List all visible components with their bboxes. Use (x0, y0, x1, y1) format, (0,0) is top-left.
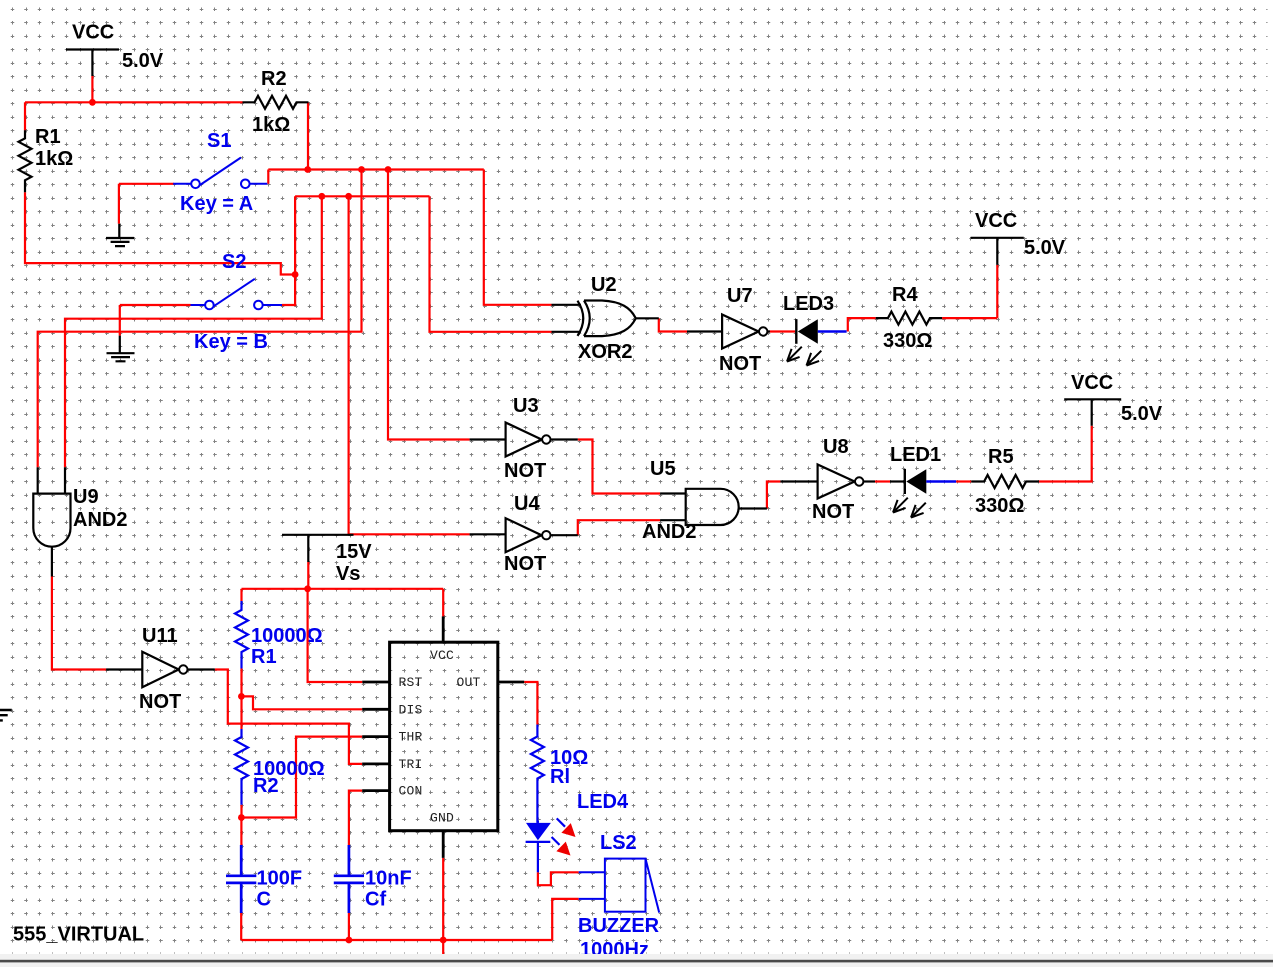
wire R2b bottom to THR node (240, 805, 242, 818)
svg-text:330Ω: 330Ω (975, 495, 1024, 517)
op gate U4 NOT (470, 518, 578, 552)
svg-text:LED4: LED4 (577, 791, 629, 813)
wire S1 left to ground G1 (119, 184, 174, 224)
svg-text:RST: RST (399, 675, 423, 690)
svg-text:GND: GND (430, 811, 454, 826)
svg-text:C: C (257, 889, 271, 911)
svg-text:LED1: LED1 (890, 444, 941, 466)
wire ground bus (241, 939, 552, 941)
svg-text:XOR2: XOR2 (578, 341, 632, 363)
op gate U5 AND2 (660, 489, 767, 525)
junction bus B to U4 input (345, 193, 352, 200)
wire U11 output to TRI pin (215, 670, 362, 764)
svg-text:5.0V: 5.0V (122, 50, 164, 72)
svg-text:VCC: VCC (975, 210, 1017, 232)
svg-text:Key = A: Key = A (180, 193, 253, 215)
wire DIS node down to R2b top (240, 696, 242, 729)
wire VCC1 node to R1/R2 (25, 101, 243, 103)
svg-text:5.0V: 5.0V (1121, 403, 1163, 425)
svg-text:Rl: Rl (550, 766, 570, 788)
junction R2/S1 node A on bus A (304, 166, 311, 173)
junction GND pin/ground bus node (440, 937, 447, 944)
junction Cf/ground bus node (346, 937, 353, 944)
svg-text:BUZZER: BUZZER (578, 915, 660, 937)
op gate U9 AND2 vertical (33, 467, 70, 576)
junction R2b/C/THR node (238, 814, 245, 821)
junction R1b/DIS node (238, 693, 245, 700)
switch S2 (191, 279, 283, 310)
diode LED3 (787, 319, 847, 365)
op gate U11 NOT (106, 652, 215, 688)
svg-text:1kΩ: 1kΩ (252, 114, 290, 136)
svg-text:15V: 15V (336, 541, 372, 563)
buzzer LS2 (579, 859, 660, 913)
capacitor C 100F (226, 845, 256, 913)
op gate U7 NOT (687, 315, 770, 349)
wire bus A (268, 168, 484, 170)
wire bus A drop to U3 input (388, 170, 470, 440)
svg-text:100F: 100F (257, 868, 303, 890)
svg-text:U11: U11 (142, 625, 178, 647)
svg-text:U9: U9 (73, 486, 99, 508)
svg-text:10000Ω: 10000Ω (251, 625, 323, 647)
resistor Rl 10Ohm blue (531, 725, 544, 823)
svg-text:R4: R4 (892, 284, 918, 306)
svg-text:VCC: VCC (72, 22, 114, 44)
wire U8 output to LED1 (875, 480, 890, 482)
wire THR node up to THR pin (241, 737, 362, 818)
wire S1 right up to bus A (267, 170, 269, 184)
wire S2 left to ground G2 (120, 305, 191, 336)
svg-text:LED3: LED3 (783, 293, 834, 315)
svg-text:10nF: 10nF (365, 868, 412, 890)
svg-text:THR: THR (399, 730, 423, 745)
svg-text:NOT: NOT (504, 553, 546, 575)
wire R1b bottom to DIS node (240, 669, 242, 697)
svg-text:U7: U7 (727, 285, 753, 307)
svg-text:DIS: DIS (399, 702, 423, 717)
wire bus B drop to U9 input B (65, 196, 322, 467)
svg-text:Cf: Cf (365, 889, 386, 911)
wire R5 to VCC3 stem (1039, 426, 1092, 482)
svg-text:NOT: NOT (504, 460, 546, 482)
svg-text:R5: R5 (988, 446, 1014, 468)
junction bus B to U9 input (318, 193, 325, 200)
svg-text:AND2: AND2 (642, 521, 696, 543)
scrollbar strip (0, 954, 1273, 967)
wire LED4 cathode jog to LS2 pin 1 (538, 872, 579, 885)
resistor R2 1kOhm (243, 96, 309, 109)
power VCC3 5.0V (1064, 399, 1121, 425)
svg-text:U4: U4 (514, 493, 540, 515)
svg-text:NOT: NOT (812, 501, 854, 523)
wire DIS node jog to DIS pin (241, 696, 362, 709)
wire Vs bus to 555 VCC (242, 588, 444, 590)
svg-text:5.0V: 5.0V (1024, 237, 1066, 259)
junction 15V Vs node (304, 585, 311, 592)
svg-text:TRI: TRI (399, 757, 423, 772)
wire LED1 to R5 (956, 480, 971, 482)
resistor R1b 10000Ohm blue (235, 601, 248, 669)
resistor R2b 10000Ohm blue (235, 729, 248, 805)
power VCC2 5.0V (971, 238, 1024, 265)
svg-text:555_VIRTUAL: 555_VIRTUAL (13, 924, 144, 946)
junction R1/S2 node B (292, 271, 299, 278)
wire Vs node down to RST pin (308, 589, 363, 682)
wire cap Cf bottom to ground bus (348, 913, 350, 940)
wire 15V stem red (307, 562, 309, 589)
wire CON pin to Cf (349, 791, 362, 845)
wire bus B left down to S2 right contact (282, 196, 295, 305)
svg-text:S1: S1 (207, 130, 231, 152)
wire VCC1 stem red (91, 76, 93, 102)
wire R4 to VCC2 stem (942, 265, 997, 318)
wire bus B end down to XOR bottom input (430, 196, 552, 331)
svg-text:1kΩ: 1kΩ (35, 148, 73, 170)
svg-text:Key = B: Key = B (194, 331, 268, 353)
ground clipped at left edge (0, 710, 12, 720)
junction bus A to U9 input (358, 166, 365, 173)
ground G2 (107, 336, 135, 362)
svg-text:LS2: LS2 (600, 832, 637, 854)
wire U9 output down to U11 input (52, 577, 106, 670)
svg-text:CON: CON (399, 784, 423, 799)
power VCC1 5.0V (66, 50, 119, 77)
svg-text:U2: U2 (591, 274, 617, 296)
resistor R5 330Ohm (971, 475, 1039, 488)
wire THR node down to cap C (240, 818, 242, 846)
wire cap C bottom to ground bus (240, 913, 242, 940)
svg-text:S2: S2 (222, 251, 246, 273)
power 15V Vs (282, 535, 354, 562)
wire U7 output to LED3 (768, 330, 795, 332)
svg-text:R1: R1 (35, 126, 61, 148)
wire OUT pin to Rl (524, 682, 537, 725)
wire U3 output step down to U5 input A (578, 440, 660, 494)
svg-text:U3: U3 (513, 395, 539, 417)
resistor R4 330Ohm (876, 312, 942, 325)
wire LS2 pin 2 to ground bus (552, 899, 579, 940)
ground G1 (106, 224, 134, 246)
op gate U3 NOT (470, 423, 578, 457)
svg-text:R2: R2 (253, 775, 279, 797)
op gate U8 NOT (780, 465, 875, 499)
svg-text:VCC: VCC (1071, 372, 1113, 394)
svg-text:VCC: VCC (430, 648, 454, 663)
wire U5 output step up to U8 input (767, 482, 781, 509)
wire 555 VCC pin red (442, 589, 444, 617)
wire LED3 to R4 step up (848, 318, 876, 331)
wire bus A drop to U9 input A (38, 170, 362, 468)
junction VCC1 node (89, 99, 96, 106)
svg-text:Vs: Vs (336, 563, 360, 585)
op gate U2 XOR2 (552, 301, 659, 337)
diode LED1 (890, 469, 956, 518)
wire bus B drop to U4 input (349, 196, 470, 534)
wire U4 output step up to U5 input B (578, 520, 660, 535)
svg-text:R1: R1 (251, 646, 277, 668)
svg-text:R2: R2 (261, 68, 287, 90)
wire R1 bottom to S2 node (25, 192, 295, 274)
svg-text:AND2: AND2 (73, 509, 127, 531)
diode LED4 blue (526, 818, 576, 872)
capacitor Cf 10nF (334, 845, 364, 913)
wire bus B (295, 195, 429, 197)
svg-text:U5: U5 (650, 458, 676, 480)
switch S1 (173, 158, 267, 189)
junction bus A to U3 input (385, 166, 392, 173)
resistor R1 1kOhm (19, 130, 32, 192)
wire R1 top lead (24, 102, 26, 130)
wire bus A end down to XOR top input (484, 170, 552, 305)
wire R2 right down to bus A (307, 102, 309, 169)
wire 555 GND pin to ground bus and off-canvas (442, 858, 444, 954)
wire XOR output step to U7 (659, 318, 687, 331)
IC U10 555_VIRTUAL box (362, 616, 524, 858)
svg-text:NOT: NOT (719, 353, 761, 375)
svg-text:NOT: NOT (139, 691, 181, 713)
svg-text:330Ω: 330Ω (883, 330, 932, 352)
svg-text:OUT: OUT (457, 675, 481, 690)
svg-text:U8: U8 (823, 436, 849, 458)
wire R1b top lead (240, 589, 242, 601)
